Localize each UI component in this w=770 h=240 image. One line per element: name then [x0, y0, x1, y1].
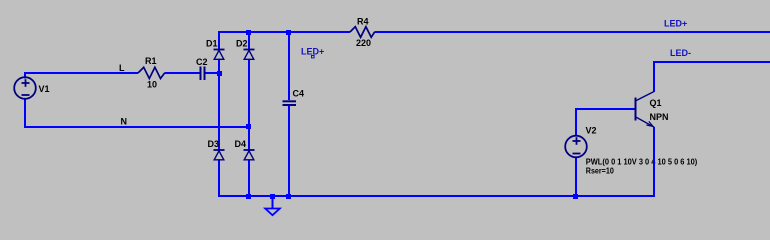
- svg-text:C2: C2: [196, 57, 208, 67]
- svg-text:10: 10: [147, 80, 157, 90]
- node: junction D2 top on bus: [246, 30, 251, 35]
- wire: bottom bus: [218, 195, 654, 197]
- wire: V1 top stub: [24, 73, 26, 79]
- wire: N net horizontal (V1 to D2/D4 branch): [24, 126, 250, 128]
- svg-text:C4: C4: [293, 89, 305, 99]
- wire: Q1 emitter vertical: [653, 127, 655, 197]
- svg-text:R1: R1: [145, 56, 157, 66]
- svg-text:N: N: [121, 117, 128, 127]
- capacitor C4: [283, 101, 297, 105]
- wire: D3 anode down to bottom bus: [218, 160, 220, 198]
- wire: top bus left segment (D1 top to R4): [218, 31, 350, 33]
- wire: L net horizontal (V1 to R1): [24, 72, 138, 74]
- wire: V1 bottom stub: [24, 99, 26, 128]
- node: junction at C2/D1 bridge input: [217, 71, 222, 76]
- capacitor C2: [201, 67, 205, 81]
- voltage source V1: [14, 77, 36, 99]
- diode D4: [244, 150, 255, 160]
- diode D1: [214, 50, 225, 60]
- svg-text:D3: D3: [208, 139, 220, 149]
- transistor Q1: [636, 92, 655, 128]
- node: junction V2 bottom on bus: [573, 194, 578, 199]
- wire: Q1 collector vertical: [653, 61, 655, 92]
- wire: D4 anode down to bottom bus: [248, 160, 250, 198]
- wire: C2 to bridge node: [205, 72, 220, 74]
- resistor R1: [138, 67, 165, 78]
- wire: Q1 base wire from V2: [575, 108, 635, 110]
- wire: C4 bottom lead: [288, 106, 290, 197]
- svg-text:NPN: NPN: [650, 112, 669, 122]
- wire: D1 cathode lead up: [218, 31, 220, 50]
- svg-text:D4: D4: [235, 139, 247, 149]
- svg-text:LED+: LED+: [301, 47, 324, 57]
- svg-text:V2: V2: [586, 126, 597, 136]
- wire: V2 bottom lead: [575, 157, 577, 197]
- wire: ground stub: [272, 196, 274, 209]
- voltage source V2: [565, 136, 587, 158]
- resistor R4: [350, 27, 375, 38]
- svg-text:Q1: Q1: [650, 98, 662, 108]
- node: junction C4 top on bus: [286, 30, 291, 35]
- wire: C4 top lead: [288, 31, 290, 100]
- node: junction ground on bus: [270, 194, 275, 199]
- wire: LED- net horizontal: [653, 61, 770, 63]
- wire: V2 top lead: [575, 108, 577, 136]
- node: junction N wire to D2/D4: [246, 124, 251, 129]
- net label LED+ attachment square: [312, 56, 315, 58]
- svg-text:V1: V1: [39, 84, 50, 94]
- wire: D1 anode to D3 cathode vertical: [218, 59, 220, 150]
- svg-text:D2: D2: [236, 39, 248, 49]
- svg-text:220: 220: [356, 38, 371, 48]
- svg-text:Rser=10: Rser=10: [586, 165, 614, 175]
- svg-text:D1: D1: [206, 39, 218, 49]
- wire: top bus right segment (R4 to right edge, LED+ net): [375, 31, 770, 33]
- diode D3: [214, 150, 225, 160]
- node: junction C4 bottom on bus: [286, 194, 291, 199]
- svg-text:R4: R4: [357, 17, 369, 27]
- svg-text:LED-: LED-: [670, 48, 691, 58]
- ground: [265, 209, 280, 216]
- diode D2: [244, 50, 255, 60]
- wire: D2 anode to D4 cathode vertical: [248, 59, 250, 150]
- wire: R1 to C2: [165, 72, 201, 74]
- wire: D2 cathode lead up: [248, 31, 250, 50]
- node: junction D4 bottom on bus: [246, 194, 251, 199]
- svg-text:L: L: [119, 63, 125, 73]
- svg-text:LED+: LED+: [664, 19, 687, 29]
